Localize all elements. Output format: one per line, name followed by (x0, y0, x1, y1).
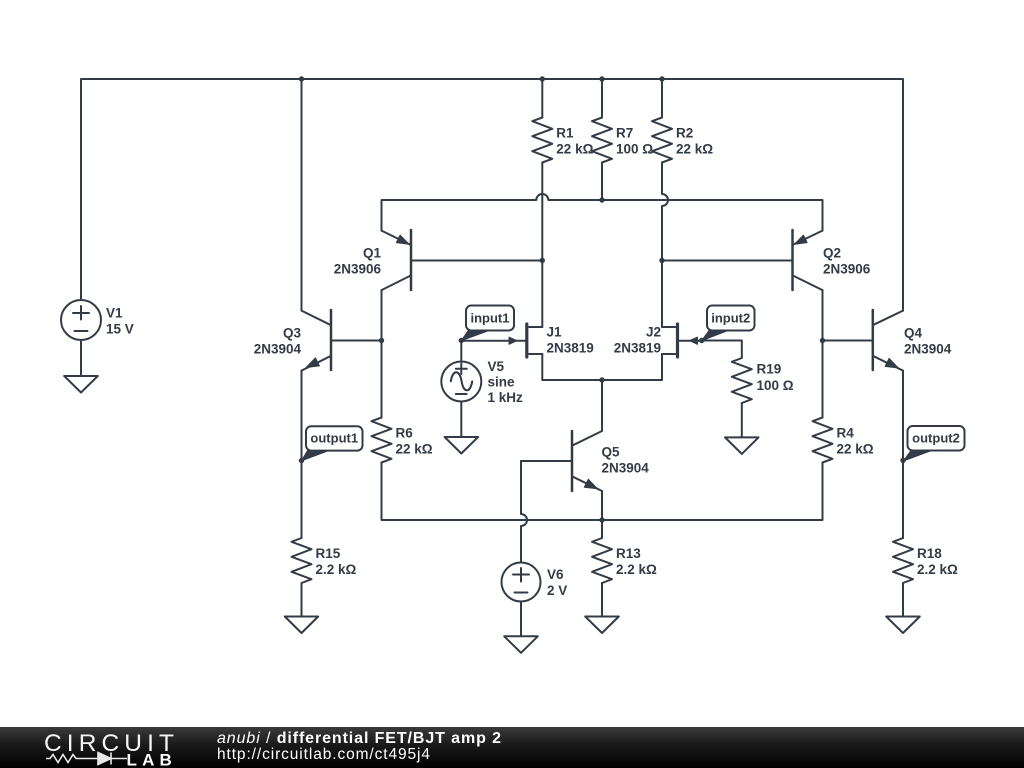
svg-text:LAB: LAB (127, 751, 178, 768)
node Q4 base junction (820, 338, 825, 343)
callout output2 (908, 426, 965, 451)
jfet J1 2N3819 (525, 324, 528, 357)
node source junction (599, 377, 604, 382)
svg-text:J1: J1 (547, 324, 563, 339)
svg-text:output1: output1 (310, 430, 358, 445)
svg-text:R4: R4 (837, 426, 855, 441)
wire Q5 emitter down (601, 491, 603, 520)
wire Q3 emitter down (301, 371, 303, 538)
wire R13 leads (601, 520, 603, 617)
svg-text:input2: input2 (711, 310, 750, 325)
wire input1-V5 (460, 341, 462, 362)
svg-text:R19: R19 (757, 362, 782, 377)
svg-text:R1: R1 (556, 126, 574, 141)
svg-text:Q5: Q5 (602, 445, 621, 460)
svg-text:R2: R2 (676, 126, 693, 141)
svg-text:2N3906: 2N3906 (334, 262, 382, 277)
ground R19 (725, 437, 759, 454)
wire source to Q5 (601, 380, 603, 431)
transistor Q1 2N3906 (410, 230, 413, 290)
svg-text:input1: input1 (471, 310, 510, 325)
wire J1 gate (461, 340, 525, 342)
wire Q2 base (662, 260, 793, 262)
transistor Q4 2N3904 (872, 310, 875, 370)
svg-text:J2: J2 (646, 324, 661, 339)
svg-text:2N3819: 2N3819 (614, 340, 661, 355)
node Q1 base junction (540, 258, 545, 263)
svg-text:sine: sine (488, 374, 516, 389)
wire Q2 collector down (822, 290, 824, 417)
wire V5-ground (460, 402, 462, 438)
node input1 tap (459, 338, 464, 343)
callout input2 (707, 306, 755, 331)
svg-text:22 kΩ: 22 kΩ (556, 142, 593, 157)
ground R18 (886, 617, 920, 634)
svg-text:R18: R18 (917, 546, 942, 561)
node Q2 base junction (659, 258, 664, 263)
wire R2 column with hop (662, 79, 668, 327)
wire emitter rail y200 with hop (382, 194, 823, 231)
wire V+ top rail (81, 79, 903, 311)
ground V1 (64, 376, 98, 393)
svg-text:2N3904: 2N3904 (602, 461, 650, 476)
svg-text:Q1: Q1 (363, 246, 382, 261)
node rail-x301 (299, 76, 304, 81)
wire V6-ground (520, 602, 522, 637)
transistor Q3 2N3904 (330, 310, 333, 370)
svg-text:Q3: Q3 (283, 326, 302, 341)
resistor R13 (592, 538, 612, 583)
svg-text:2N3819: 2N3819 (547, 340, 594, 355)
svg-text:1 kHz: 1 kHz (488, 390, 524, 405)
svg-text:R15: R15 (316, 546, 341, 561)
node output1 tap (299, 458, 304, 463)
wire R1 column (541, 79, 543, 327)
wire Q1 collector down (381, 290, 383, 417)
resistor R7 (592, 118, 612, 163)
svg-text:2.2 kΩ: 2.2 kΩ (316, 562, 357, 577)
wire Q4 emitter down (902, 371, 904, 538)
wire V1-ground (80, 340, 82, 376)
node Q3 base junction (379, 338, 384, 343)
svg-text:2N3904: 2N3904 (904, 341, 952, 356)
voltage source V5 sine (441, 362, 481, 402)
svg-text:2N3904: 2N3904 (254, 342, 302, 357)
svg-text:2.2 kΩ: 2.2 kΩ (917, 562, 958, 577)
transistor Q2 2N3906 (791, 230, 794, 290)
jfet J2 2N3819 (676, 324, 679, 357)
ground R13 (585, 617, 619, 634)
svg-text:R7: R7 (616, 126, 633, 141)
wire J2 gate (679, 340, 701, 342)
svg-text:V5: V5 (488, 359, 505, 374)
svg-text:2 V: 2 V (547, 583, 567, 598)
callout input1 (466, 306, 514, 331)
node rail-x602 (599, 76, 604, 81)
svg-text:Q2: Q2 (823, 246, 841, 261)
svg-text:R6: R6 (396, 426, 414, 441)
node output2 tap (900, 458, 905, 463)
wire tail rail y520 (382, 463, 823, 521)
svg-text:V1: V1 (106, 306, 123, 321)
resistor R4 (813, 418, 833, 463)
node input2 tap (699, 338, 704, 343)
svg-text:output2: output2 (912, 430, 960, 445)
arrow J1 gate (509, 337, 517, 344)
node tail-rail x602 junction (599, 517, 604, 522)
node emitter-rail R7 junction (599, 197, 604, 202)
resistor R15 (292, 538, 312, 583)
svg-text:2.2 kΩ: 2.2 kΩ (616, 562, 657, 577)
wire R15-ground (301, 583, 303, 617)
arrow J2 gate (690, 337, 698, 344)
svg-text:Q4: Q4 (904, 325, 923, 340)
resistor R6 (372, 418, 392, 463)
wire V6 column with hop (521, 461, 527, 563)
callout output1 (306, 426, 363, 450)
svg-text:R13: R13 (616, 546, 641, 561)
wire Q3 collector up (301, 79, 303, 311)
CircuitLab logo (0, 727, 180, 768)
wire R18-ground (902, 583, 904, 617)
node rail-x542 (540, 76, 545, 81)
ground V5 (445, 437, 479, 454)
svg-text:22 kΩ: 22 kΩ (676, 142, 713, 157)
transistor Q5 2N3904 (571, 431, 574, 491)
svg-text:100 Ω: 100 Ω (616, 142, 653, 157)
svg-text:22 kΩ: 22 kΩ (396, 442, 433, 457)
voltage source V1 (61, 300, 101, 340)
wire R19-ground (741, 403, 743, 437)
svg-text:100 Ω: 100 Ω (757, 378, 794, 393)
footer title (217, 731, 502, 764)
wire R7 leads (601, 79, 603, 200)
svg-text:22 kΩ: 22 kΩ (837, 442, 874, 457)
wire J1 J2 sources (542, 354, 662, 380)
resistor R18 (893, 538, 913, 583)
resistor R2 (652, 118, 672, 163)
resistor R19 (732, 358, 752, 403)
voltage source V6 (502, 563, 541, 602)
node rail-x662 (659, 76, 664, 81)
resistor R1 (532, 118, 552, 163)
ground R15 (285, 617, 318, 634)
wire input2-R19 (702, 341, 742, 359)
svg-text:V6: V6 (547, 567, 564, 582)
svg-text:2N3906: 2N3906 (823, 262, 871, 277)
ground V6 (504, 636, 538, 653)
svg-text:15 V: 15 V (106, 322, 134, 337)
